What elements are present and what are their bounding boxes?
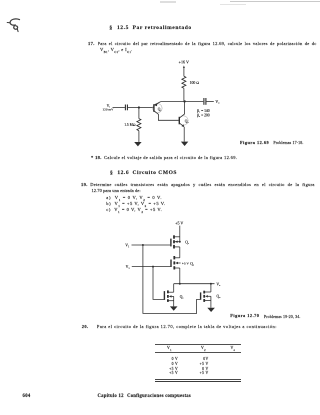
problem 19 — [81, 182, 88, 187]
footer — [23, 394, 31, 399]
wire V1 to Q4 gate — [143, 245, 200, 313]
figure 12.70 : CMOS NOR schematic — [106, 218, 242, 318]
table of voltages — [155, 343, 241, 346]
section heading 12.6 — [110, 170, 177, 176]
transistor Q2 (PMOS) — [171, 256, 195, 270]
svg-text:+16 V: +16 V — [179, 60, 189, 65]
node base Q1 — [138, 106, 140, 108]
wire RC to node — [183, 88, 185, 101]
resistor RC 100 Ohm — [182, 76, 199, 88]
svg-text:Q₂: Q₂ — [185, 120, 190, 124]
svg-text:β₁ = 140: β₁ = 140 — [197, 109, 210, 113]
ground (Q2 emitter) — [181, 142, 188, 146]
wire output bus — [161, 100, 203, 102]
source Vi 120 mV — [102, 104, 124, 112]
node Q2 drain on output bus — [179, 283, 181, 285]
svg-text:Q₂: Q₂ — [190, 262, 195, 266]
capacitor C1 (input) — [125, 105, 138, 111]
caption figure 12.69 — [240, 140, 269, 145]
svg-text:100 Ω: 100 Ω — [190, 81, 200, 85]
svg-text:Vₒ: Vₒ — [215, 100, 220, 104]
svg-text:Q₁: Q₁ — [158, 107, 162, 111]
transistor Q1 (PMOS) — [171, 235, 189, 248]
wire Q4 source/substrate to ground — [210, 296, 212, 307]
wire V2 to Q3 gate — [153, 267, 164, 300]
ground (Q4) — [207, 308, 215, 312]
transistor Q3 (NMOS) — [164, 290, 184, 302]
svg-text:β₂ = 200: β₂ = 200 — [197, 113, 210, 117]
svg-text:Vₒ: Vₒ — [216, 282, 221, 286]
supply +5 V — [175, 221, 183, 242]
problem 17 — [88, 41, 95, 46]
ground (RB) — [134, 142, 141, 146]
svg-text:Q₄: Q₄ — [217, 295, 222, 299]
svg-text:V₁: V₁ — [125, 244, 130, 248]
problem 20 — [82, 324, 89, 329]
wire Q3 source/substrate to ground — [173, 296, 175, 306]
caption figure 12.70 — [230, 313, 259, 318]
wire Q1 collector to Q2 base — [154, 111, 179, 120]
transistor Q2 (npn) — [179, 102, 190, 127]
wire V2 to Q2 gate — [132, 266, 171, 268]
problem 18 — [91, 155, 102, 160]
transistor Q4 (NMOS) — [201, 291, 221, 302]
node Q4 drain on output bus — [210, 283, 212, 285]
svg-text:120 mV: 120 mV — [102, 108, 114, 112]
wire Q2 emitter to ground — [183, 127, 185, 142]
svg-text:+5 V: +5 V — [182, 261, 190, 265]
node collector/output — [183, 100, 185, 102]
transistor Q1 (pnp) — [153, 102, 162, 113]
handwritten margin mark — [2, 12, 32, 42]
svg-text:Q₁: Q₁ — [185, 241, 189, 245]
svg-text:V₂: V₂ — [126, 265, 131, 269]
node V2 junction — [152, 266, 154, 268]
wire Q3 drain up to output — [173, 284, 175, 293]
wire Q2 drain to output — [179, 268, 181, 284]
scan artifact: faint top edge line — [230, 1, 320, 2]
svg-text:+5 V: +5 V — [175, 221, 183, 226]
svg-text:Q₃: Q₃ — [180, 295, 185, 299]
node V1 junction — [142, 244, 144, 246]
svg-text:1.5 MΩ: 1.5 MΩ — [124, 123, 136, 127]
ground (Q3) — [170, 306, 178, 310]
capacitor C2 (output) — [204, 98, 214, 105]
wire Q4 drain up to output — [210, 284, 212, 292]
figure 12.69 : feedback pair schematic — [86, 55, 250, 151]
wire output bus — [174, 283, 215, 285]
resistor RB 1.5 MOhm — [124, 108, 141, 143]
supply +16 V — [179, 60, 189, 77]
wire V1 to Q1 gate — [132, 244, 171, 246]
section heading 12.5 — [109, 25, 191, 31]
wire Q1 drain to Q2 source — [179, 247, 181, 258]
wire base — [139, 107, 154, 109]
